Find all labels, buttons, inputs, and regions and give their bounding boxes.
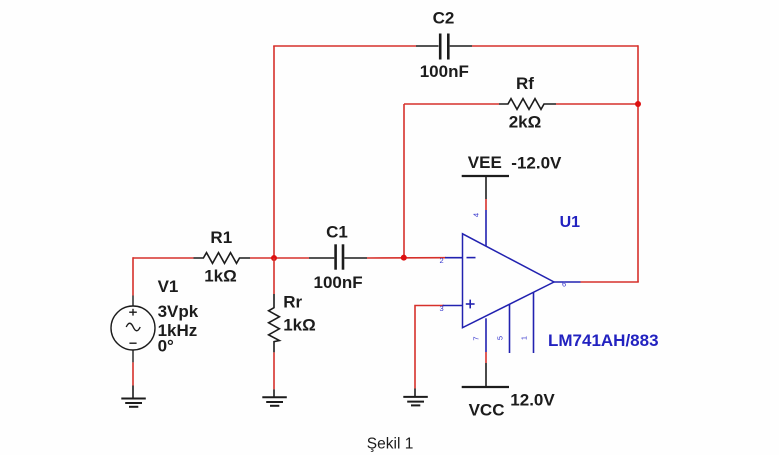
svg-text:Şekil 1: Şekil 1	[367, 436, 414, 453]
wire: Rr branch red from node down to resistor	[273, 258, 275, 294]
svg-text:0°: 0°	[158, 336, 174, 355]
wire: output red segment to right vertical	[581, 281, 639, 283]
svg-text:7: 7	[472, 336, 481, 340]
pin 5 stub (offset null, blue)	[509, 304, 511, 353]
resistor R1 (zigzag body)	[194, 253, 251, 264]
pin 7 stub (V+ supply, blue)	[485, 318, 487, 352]
svg-text:6: 6	[562, 280, 566, 289]
svg-text:VEE: VEE	[468, 153, 502, 172]
svg-text:2: 2	[440, 256, 444, 265]
pin 1 stub (offset null, blue)	[533, 292, 535, 353]
svg-text:Rf: Rf	[516, 74, 534, 93]
pin 6 stub (output, blue)	[554, 281, 581, 283]
svg-text:-12.0V: -12.0V	[511, 154, 562, 173]
svg-text:3Vpk: 3Vpk	[158, 302, 199, 321]
svg-text:5: 5	[496, 336, 505, 340]
svg-text:Rr: Rr	[283, 292, 302, 311]
junction: Rf meets right vertical	[635, 101, 641, 107]
svg-text:1kΩ: 1kΩ	[204, 267, 237, 286]
op-amp U1 (triangle body)	[463, 234, 555, 328]
wire: main input rail red segment from C1 to op-amp inverting pin	[367, 257, 446, 259]
resistor Rf (zigzag body)	[499, 99, 556, 110]
resistor Rr (vertical zigzag body)	[269, 294, 280, 352]
wire: VCC red segment	[485, 352, 487, 363]
pin 4 stub (V- supply, blue)	[485, 210, 487, 247]
wire: C2 top rail right red segment to right vertical	[472, 45, 638, 47]
wire: main input rail red segment from R1 to C1	[250, 257, 309, 259]
wire: Rr bottom red segment to ground	[273, 352, 275, 389]
svg-text:R1: R1	[210, 228, 232, 247]
pin 2 stub (inverting input, blue)	[445, 257, 463, 259]
ground (at non-inverting input)	[403, 389, 428, 406]
svg-text:VCC: VCC	[469, 400, 505, 419]
wire: Rf rail right red segment	[556, 103, 638, 105]
junction: R1 / Rr / C2-branch node	[271, 255, 277, 261]
ground (under Rr)	[262, 389, 287, 405]
svg-text:LM741AH/883: LM741AH/883	[548, 331, 659, 350]
pin 3 stub (non-inverting input, blue)	[443, 305, 463, 307]
wire: vertical from Rf rail down to inverting-input node	[403, 104, 405, 258]
op-amp U1 minus sign	[467, 257, 476, 259]
svg-text:U1: U1	[560, 214, 581, 231]
junction: C1 output meets feedback branch	[401, 255, 407, 261]
svg-text:12.0V: 12.0V	[510, 391, 555, 410]
svg-text:3: 3	[440, 304, 444, 313]
wire: right vertical (output feedback bus)	[637, 45, 639, 282]
power symbol VEE (bar and stem)	[462, 176, 509, 199]
wire: top-left vertical from C2 wire down to main input node	[273, 46, 275, 258]
wire: V1 top vertical red	[132, 257, 134, 295]
power symbol VCC (bar and stem)	[462, 363, 509, 387]
wire: non-inverting input red segment (ground up and right to pin)	[415, 306, 444, 389]
svg-text:100nF: 100nF	[314, 273, 363, 292]
svg-text:100nF: 100nF	[420, 62, 469, 81]
svg-text:1kΩ: 1kΩ	[283, 316, 316, 335]
op-amp U1 plus sign	[466, 300, 475, 309]
capacitor C2 (body, black leads and plates)	[416, 34, 472, 60]
svg-text:1: 1	[520, 336, 529, 340]
source V1 (AC sine source symbol)	[111, 296, 155, 363]
ground (under V1)	[121, 386, 146, 407]
wire: main input rail red segment from V1 to R1	[133, 257, 194, 259]
svg-text:V1: V1	[158, 277, 179, 296]
wire: VEE red segment	[485, 199, 487, 210]
capacitor C1 (body, black leads and plates)	[309, 244, 367, 269]
wire: C2 top rail left red segment	[273, 45, 416, 47]
svg-text:4: 4	[472, 213, 481, 217]
svg-text:C1: C1	[326, 222, 348, 241]
svg-text:C2: C2	[433, 9, 455, 28]
svg-text:2kΩ: 2kΩ	[509, 113, 542, 132]
wire: Rf rail left red segment	[404, 103, 499, 105]
wire: V1 bottom red segment to ground	[132, 362, 134, 385]
